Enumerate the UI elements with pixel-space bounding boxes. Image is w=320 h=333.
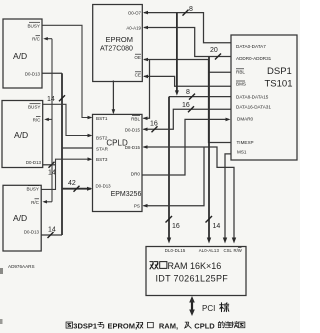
dual-port RAM pin labels: [165, 247, 243, 253]
svg-text:DATA16-DATA31: DATA16-DATA31: [236, 105, 271, 110]
svg-text:BMS: BMS: [236, 82, 246, 87]
svg-text:42: 42: [68, 180, 76, 187]
svg-text:CPLD: CPLD: [194, 321, 215, 330]
CPLD labels: [96, 116, 142, 209]
wire: A/D3 D0-D13 row: [41, 232, 62, 238]
wire: EPROM CE to DSP BMS: [143, 75, 231, 87]
svg-text:BST1: BST1: [96, 116, 108, 121]
wire: merged 42-bit bus into CPLD: [62, 186, 93, 192]
wire: CPLD STAR row: [62, 147, 93, 149]
svg-text:R/C: R/C: [33, 117, 42, 122]
PCI bridge label: PCI桥: [202, 303, 229, 313]
wire: A/D3 BUSY to CPLD BST3: [41, 157, 92, 189]
svg-text:A/D: A/D: [14, 130, 28, 140]
svg-text:16: 16: [172, 223, 180, 230]
svg-text:16: 16: [150, 121, 158, 128]
svg-text:14: 14: [213, 223, 221, 230]
svg-text:TS101: TS101: [265, 79, 293, 90]
svg-text:EPM3256: EPM3256: [111, 191, 142, 198]
wire: A/D2 D0-D13 row: [43, 162, 56, 168]
svg-text:16: 16: [182, 102, 190, 109]
wire: PS row from address riser to CPLD PS: [143, 147, 205, 208]
svg-text:STAR: STAR: [96, 147, 109, 152]
svg-text:IDT 70261L25PF: IDT 70261L25PF: [156, 274, 229, 284]
svg-text:DMAR0: DMAR0: [237, 116, 254, 121]
svg-text:DR0: DR0: [131, 172, 141, 177]
svg-text:A/D: A/D: [13, 213, 27, 223]
wire: CPLD R/WL to RAM R/W: [143, 145, 237, 243]
wire: data bus down to RAM DL0-DL15 (16-bit): [166, 97, 173, 244]
svg-text:A/D: A/D: [13, 51, 27, 61]
svg-text:D0-D13: D0-D13: [24, 230, 40, 235]
A/D converter 2 box: [2, 101, 43, 168]
svg-text:14: 14: [48, 227, 56, 234]
svg-text:CSL: CSL: [224, 248, 233, 253]
svg-text:20: 20: [210, 47, 218, 54]
svg-text:AD976AARS: AD976AARS: [8, 264, 35, 269]
caption: 图3 DSP1 与 EPROM, 双口 RAM, 及 CPLD 的连接图: [66, 321, 245, 330]
svg-text:AL0-AL13: AL0-AL13: [199, 248, 220, 253]
svg-text:MS1: MS1: [237, 149, 247, 154]
wire: DSP address branch down to RAM AL0-AL13 (14-bit): [206, 57, 213, 244]
wire: CPLD DR0 up to DSP DMAR0: [142, 118, 231, 175]
wire: A/D2 BUSY to CPLD BST2: [43, 104, 93, 137]
svg-text:RBL: RBL: [131, 116, 140, 121]
DSP1 box: [231, 35, 297, 160]
A/D converter 1 box: [3, 19, 42, 88]
svg-text:A0-A19: A0-A19: [126, 26, 141, 31]
wire: A/D1 D0-D13 row: [42, 72, 62, 74]
svg-text:EPROM: EPROM: [106, 35, 134, 44]
svg-text:BST3: BST3: [96, 157, 108, 162]
svg-text:PCI: PCI: [202, 304, 215, 313]
wire: RAM to PCI bridge (bold double arrow): [189, 296, 195, 316]
svg-text:R/C: R/C: [32, 37, 41, 42]
svg-text:D0-D15: D0-D15: [125, 127, 141, 132]
svg-text:8: 8: [189, 6, 193, 13]
svg-text:DATA0-DATA7: DATA0-DATA7: [236, 44, 266, 49]
CPLD box: [93, 114, 143, 211]
wire: EPROM O0-O7 to DSP DATA0-DATA7 (8-bit bus): [143, 10, 231, 43]
svg-text:D0-D13: D0-D13: [25, 71, 41, 76]
wire: DSP MS1 down to RAM CSL: [223, 154, 231, 244]
svg-text:BUSY: BUSY: [28, 105, 41, 110]
svg-text:BUSY: BUSY: [27, 23, 40, 28]
svg-text:ADDR0-ADDR31: ADDR0-ADDR31: [236, 56, 272, 61]
dual-port RAM title: 双口RAM 16K×16: [150, 261, 221, 271]
svg-text:D8-D15: D8-D15: [125, 145, 141, 150]
EPROM box: [93, 5, 143, 82]
wire: EPROM OE to vertical channel and DSP TIMEXP row: [143, 58, 231, 143]
wire: EPROM A0-A19 to DSP ADDR (20-bit bus): [143, 26, 231, 60]
EPROM labels: [100, 11, 142, 78]
svg-text:AT27C080: AT27C080: [100, 46, 133, 53]
svg-text:BUSY: BUSY: [26, 186, 39, 191]
svg-text:D0-D13: D0-D13: [96, 184, 112, 189]
svg-text:8: 8: [186, 89, 190, 96]
svg-text:RAM,: RAM,: [159, 321, 178, 330]
svg-text:TIMEXP: TIMEXP: [237, 140, 254, 145]
wire: A/D data chain vertical (14-bit buses): [59, 73, 65, 235]
svg-text:DL0-DL15: DL0-DL15: [165, 248, 186, 253]
A/D1 labels: [13, 22, 41, 76]
svg-text:DATA8-DATA15: DATA8-DATA15: [236, 95, 269, 100]
svg-text:RBL: RBL: [236, 69, 245, 74]
svg-text:3DSP1: 3DSP1: [73, 321, 97, 330]
svg-text:OE: OE: [134, 55, 141, 60]
svg-text:D0-D13: D0-D13: [26, 160, 42, 165]
svg-text:R/W: R/W: [234, 248, 243, 253]
scan edge marks: [0, 268, 3, 274]
wire: A/D1 BUSY to CPLD BST1: [42, 25, 93, 119]
wire: CPLD RBL to OE line: [143, 60, 150, 121]
A/D converter 3 box: [3, 185, 41, 251]
svg-text:O0-O7: O0-O7: [128, 11, 142, 16]
A/D2 labels: [14, 104, 42, 165]
wire: EPROM bottom to CPLD top: [112, 81, 116, 115]
svg-text:14: 14: [47, 96, 55, 103]
svg-text:RAM 16K×16: RAM 16K×16: [168, 261, 222, 271]
wire: DSP DATA8-15 row (8-bit) to RAM DL vertical: [169, 94, 231, 100]
svg-text:DSP1: DSP1: [267, 66, 292, 77]
dual-port RAM box: [146, 247, 246, 296]
svg-text:R/C: R/C: [31, 200, 40, 205]
svg-text:CE: CE: [135, 73, 141, 78]
A/D3 labels: [13, 185, 40, 234]
svg-text:PS: PS: [134, 204, 140, 209]
DSP1 labels: [236, 44, 293, 154]
wire: EPROM data branch down onto data bus row: [175, 13, 179, 96]
wire: R/C chain for the three A/D converters: [42, 37, 52, 204]
svg-text:EPROM,: EPROM,: [108, 321, 138, 330]
wire: branch to DSP RBL row: [209, 71, 232, 73]
wire: DSP DATA16-31 row to CPLD D0-D15 (16-bit): [143, 106, 232, 132]
